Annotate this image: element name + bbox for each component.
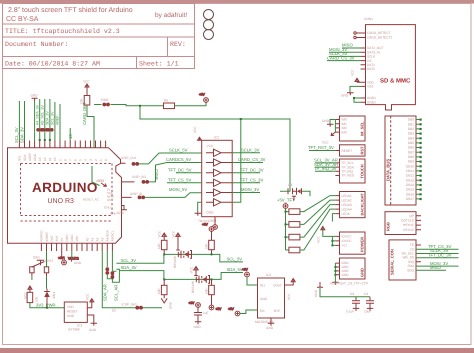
DATA BUS pin names and stubs xyxy=(406,118,414,201)
arduino top header pins xyxy=(19,141,105,148)
svg-text:10K: 10K xyxy=(204,287,208,294)
mounting hole H1 xyxy=(204,10,214,20)
svg-text:TP_RES: TP_RES xyxy=(342,174,354,178)
wire VCC3 inside arduino xyxy=(92,166,100,186)
title block outline xyxy=(3,4,195,69)
vcc arrow near IM box xyxy=(322,132,335,144)
svg-text:SCL_3V: SCL_3V xyxy=(121,258,137,263)
+5V circle below buffer xyxy=(213,225,218,230)
buffer gate 4 xyxy=(206,179,232,186)
svg-text:IM3: IM3 xyxy=(342,130,348,134)
svg-text:CARD_DETECT1: CARD_DETECT1 xyxy=(367,36,393,40)
svg-text:GND: GND xyxy=(33,153,37,161)
svg-text:MOSI_3V: MOSI_3V xyxy=(241,187,259,192)
svg-text:A1: A1 xyxy=(90,237,94,241)
svg-text:IM_SEL: IM_SEL xyxy=(360,121,365,136)
wires touch signals xyxy=(314,158,338,172)
svg-text:Q3: Q3 xyxy=(288,183,292,187)
jumper ICSP_SI xyxy=(130,192,202,199)
buffer input wires 3 and 4 xyxy=(167,173,202,183)
svg-text:A3: A3 xyxy=(101,237,105,241)
vcc arrow over R1 xyxy=(158,230,167,240)
svg-text:13: 13 xyxy=(38,157,42,161)
wires IM pins to gnd xyxy=(322,119,335,132)
vcc arrow above buffer xyxy=(193,126,202,141)
svg-text:EN: EN xyxy=(260,309,265,313)
arduino bottom pin names xyxy=(40,229,115,241)
svg-text:LEDK: LEDK xyxy=(342,212,351,216)
svg-text:DB12: DB12 xyxy=(406,174,414,178)
svg-text:RGB: RGB xyxy=(385,222,390,231)
svg-text:SW1: SW1 xyxy=(33,256,40,260)
svg-text:13: 13 xyxy=(68,134,73,139)
svg-text:+5V: +5V xyxy=(202,223,209,227)
svg-text:2.8” touch screen TFT shield f: 2.8” touch screen TFT shield for Arduino xyxy=(8,6,133,14)
wire SCL vertical with jumper SJ5 xyxy=(111,251,120,301)
svg-text:0.1uF: 0.1uF xyxy=(346,310,354,314)
svg-text:5V: 5V xyxy=(60,237,64,242)
buffer output wires with labels xyxy=(232,148,265,193)
backlight resistor R7 xyxy=(289,205,336,240)
svg-text:CARD_CS_3V: CARD_CS_3V xyxy=(238,157,266,162)
TFT gate BACKLIGHT box xyxy=(335,192,365,218)
svg-text:+3V: +3V xyxy=(242,268,249,272)
TFT gate RST box xyxy=(335,145,365,156)
svg-text:DB0: DB0 xyxy=(408,118,414,122)
+5V circle over R2 xyxy=(202,223,214,241)
wire SDA_3V from top pin xyxy=(24,101,26,141)
+3V circle mid xyxy=(189,301,201,307)
jumper ICSP_SO xyxy=(132,163,202,184)
gnd arrow under R3 xyxy=(161,298,172,309)
svg-text:Document Number:: Document Number: xyxy=(5,41,68,48)
svg-text:VCC: VCC xyxy=(97,179,104,183)
svg-text:RSRVD: RSRVD xyxy=(40,230,44,242)
backlight rail vertical xyxy=(286,208,289,250)
+5V circle under R4 xyxy=(209,305,222,311)
svg-text:GND: GND xyxy=(322,119,330,123)
svg-text:8: 8 xyxy=(63,159,67,161)
switch SW1 SPST xyxy=(30,256,54,277)
svg-text:CARD_DETECT: CARD_DETECT xyxy=(367,31,391,35)
svg-text:SDA_3V: SDA_3V xyxy=(46,111,50,125)
SD pin stubs left xyxy=(357,33,366,102)
icsp pin stubs on arduino right edge xyxy=(121,163,135,197)
svg-text:CARDCS_5V: CARDCS_5V xyxy=(166,157,191,162)
resistor R4 xyxy=(204,279,214,305)
svg-text:A0: A0 xyxy=(85,237,89,241)
mounting hole H3 xyxy=(204,30,214,40)
svg-text:AREF: AREF xyxy=(56,115,60,125)
resistor R1 xyxy=(157,240,167,254)
svg-text:BACKLIGHT: BACKLIGHT xyxy=(361,192,365,215)
svg-text:VCC: VCC xyxy=(322,141,329,145)
svg-text:9: 9 xyxy=(58,159,62,161)
svg-text:GND: GND xyxy=(314,289,318,297)
frame bottom band xyxy=(0,348,474,353)
svg-text:QP: QP xyxy=(409,214,414,218)
svg-text:+5V: +5V xyxy=(228,307,235,311)
mosfet Q1 xyxy=(173,249,192,269)
junction dots under jumpers xyxy=(39,139,51,141)
svg-text:A5_SCL_3V: A5_SCL_3V xyxy=(40,105,44,125)
junction dots Q2 row xyxy=(163,278,212,280)
solder jumper SJ3 xyxy=(46,128,53,132)
svg-text:3V3: 3V3 xyxy=(55,236,59,242)
svg-text:BSS138: BSS138 xyxy=(191,281,195,293)
hex buffer IC2 box xyxy=(198,136,232,224)
rotated net labels over jumper wires xyxy=(35,104,59,125)
wire pwm gate xyxy=(291,191,293,193)
capacitor C4 xyxy=(364,292,374,314)
svg-text:A4_SDA_3V: A4_SDA_3V xyxy=(35,104,39,125)
frame top band xyxy=(0,0,474,4)
svg-text:DB6: DB6 xyxy=(408,146,414,150)
svg-text:BSS138: BSS138 xyxy=(173,256,177,268)
SD card detect stubs xyxy=(357,33,361,38)
+3V circle at IC4 input xyxy=(242,268,258,286)
wire D13 stub xyxy=(69,128,71,141)
svg-text:IOVCC: IOVCC xyxy=(342,235,353,239)
vcc arrow at IC3 out xyxy=(86,293,94,308)
svg-text:5: 5 xyxy=(79,159,83,161)
svg-text:GND: GND xyxy=(117,211,125,215)
wire SDA vertical with jumper SJ4 xyxy=(103,251,117,301)
wire CARD_CS_3V into SD xyxy=(327,55,361,60)
+5V supply circle xyxy=(199,93,208,103)
resistor R3 xyxy=(157,279,167,298)
jumper ICSP_SH1 xyxy=(112,303,143,313)
wires gnd box to ground xyxy=(332,263,339,285)
wire LEDK down xyxy=(332,214,335,222)
svg-text:GND: GND xyxy=(342,273,350,277)
svg-text:DB14: DB14 xyxy=(406,183,414,187)
svg-text:TFT_CS_5V: TFT_CS_5V xyxy=(168,178,191,183)
svg-text:IN1: IN1 xyxy=(260,284,265,288)
svg-text:TP_IRQ_3V: TP_IRQ_3V xyxy=(314,166,337,171)
buffer input net labels xyxy=(166,148,192,193)
wire jumper column 3 xyxy=(49,99,51,141)
svg-text:VCC: VCC xyxy=(193,126,197,133)
wire MISO right xyxy=(416,265,446,270)
svg-text:ICSP_SH1: ICSP_SH1 xyxy=(122,303,138,307)
svg-text:SDO: SDO xyxy=(407,268,414,272)
svg-text:Sheet: 1/1: Sheet: 1/1 xyxy=(139,61,179,68)
svg-text:DB10: DB10 xyxy=(406,164,414,168)
svg-text:DB13: DB13 xyxy=(406,178,414,182)
svg-text:C4: C4 xyxy=(364,292,368,296)
svg-text:TFT_CS_3V: TFT_CS_3V xyxy=(240,178,263,183)
svg-text:1: 1 xyxy=(99,159,103,161)
svg-text:A2: A2 xyxy=(96,237,100,241)
wire TFT_RST_3V xyxy=(308,145,335,151)
arduino right side pin names xyxy=(83,179,118,216)
jumper ICSP_CLK xyxy=(121,153,202,166)
svg-text:DB3: DB3 xyxy=(408,132,414,136)
TFT gate TOUCH box xyxy=(335,159,365,183)
svg-text:+5V_TFT: +5V_TFT xyxy=(277,198,295,203)
wire SCL_3V horizontal xyxy=(116,254,163,263)
svg-text:IC2: IC2 xyxy=(214,136,219,140)
svg-text:DB8: DB8 xyxy=(408,155,414,159)
solder jumper SJ1 xyxy=(36,128,43,132)
vcc arrow to power pins xyxy=(317,227,336,247)
buffer gate6 output wire to backlight xyxy=(232,119,241,202)
svg-text:TFT_DC_3V: TFT_DC_3V xyxy=(428,252,452,257)
svg-text:10uF: 10uF xyxy=(364,310,371,314)
svg-text:A5/SCL: A5/SCL xyxy=(111,230,115,241)
wire through Q2 xyxy=(164,273,243,280)
junction dots Q1 row xyxy=(163,253,212,255)
IC4 regulator box xyxy=(255,273,285,324)
svg-text:GND: GND xyxy=(260,297,268,301)
svg-text:DB2: DB2 xyxy=(408,127,414,131)
wire to resistor R9 xyxy=(119,105,164,106)
svg-text:CON1: CON1 xyxy=(364,17,373,21)
wire SCLK_3V right xyxy=(416,248,459,253)
svg-text:by adafruit!: by adafruit! xyxy=(155,12,187,19)
TFT gate SERIAL_CON box xyxy=(389,240,421,280)
svg-text:D2: D2 xyxy=(112,309,116,313)
svg-text:VCC: VCC xyxy=(317,236,321,243)
svg-text:TFT_DC_3V: TFT_DC_3V xyxy=(240,168,264,173)
svg-text:TFT_DC_5V: TFT_DC_5V xyxy=(168,168,192,173)
svg-text:SCL_AR: SCL_AR xyxy=(114,285,119,301)
gnd arrow symbol left of caps xyxy=(314,282,345,297)
svg-text:LEDA1: LEDA1 xyxy=(342,194,352,198)
wire tall 4 xyxy=(54,102,56,141)
svg-text:0: 0 xyxy=(104,159,108,161)
gnd at IC4 xyxy=(266,318,274,330)
capacitor C5 xyxy=(194,307,209,329)
wire 3V3_PWR to regulator xyxy=(30,302,64,308)
svg-text:10K: 10K xyxy=(157,242,161,249)
mosfet Q2 xyxy=(191,274,210,293)
gnd at IC3 xyxy=(87,315,97,332)
svg-text:ARDUINO: ARDUINO xyxy=(32,180,98,195)
svg-text:+3V: +3V xyxy=(58,256,65,260)
svg-text:GND: GND xyxy=(341,94,349,98)
svg-text:GND: GND xyxy=(104,206,112,210)
wire backlight rail +5V TFT xyxy=(277,198,295,209)
svg-text:LEDA2: LEDA2 xyxy=(342,198,352,202)
svg-text:SD & MMC: SD & MMC xyxy=(380,78,411,85)
jumper PWR_DET xyxy=(94,98,119,106)
svg-text:BYP: BYP xyxy=(274,309,280,313)
mounting hole H2 xyxy=(204,20,214,30)
svg-text:GND: GND xyxy=(89,328,97,332)
svg-text:RESET: RESET xyxy=(67,310,78,314)
svg-text:VSYNC: VSYNC xyxy=(403,228,415,232)
svg-text:UNO R3: UNO R3 xyxy=(48,198,75,205)
vcc arrow inside arduino right xyxy=(97,179,107,187)
buffer gate 5 xyxy=(206,189,232,196)
wire arduino pin to switch xyxy=(46,251,48,289)
vcc arrow above R10 xyxy=(83,80,90,89)
svg-text:GND: GND xyxy=(194,325,202,329)
resistor R10 10K vertical xyxy=(80,88,90,105)
svg-text:VDD: VDD xyxy=(67,305,74,309)
buffer gate 6 xyxy=(206,199,232,206)
vcc arrow for Q1 gate xyxy=(171,230,180,248)
svg-text:12: 12 xyxy=(43,157,47,161)
svg-text:VCC: VCC xyxy=(158,230,162,237)
svg-text:ICSP_CLK: ICSP_CLK xyxy=(121,156,137,160)
svg-text:A4/SDA: A4/SDA xyxy=(106,229,110,241)
svg-text:10K: 10K xyxy=(80,97,84,104)
svg-text:DB11: DB11 xyxy=(406,169,414,173)
svg-text:VCC: VCC xyxy=(171,230,175,237)
vcc arrow at IC4 out xyxy=(285,279,296,301)
gnd bar below buffer left xyxy=(195,202,202,216)
wire SDA_3V horizontal xyxy=(119,265,163,279)
wire MISO into SD xyxy=(342,43,361,49)
svg-text:POWER: POWER xyxy=(360,237,365,252)
svg-text:7: 7 xyxy=(69,159,73,161)
svg-text:10: 10 xyxy=(53,157,57,161)
svg-text:DB16: DB16 xyxy=(406,192,414,196)
backlight resistor R11 xyxy=(289,209,336,253)
svg-text:SDA_3V: SDA_3V xyxy=(121,265,137,270)
regulator IC3 box xyxy=(64,302,87,332)
TFT gate DATA BUS box xyxy=(385,116,416,205)
mosfet Q3 xyxy=(280,183,310,201)
svg-text:VIN: VIN xyxy=(75,235,79,241)
svg-text:MOSI_5V: MOSI_5V xyxy=(169,187,187,192)
buffer gate 3 xyxy=(206,169,232,176)
svg-text:TFT_RST_3V: TFT_RST_3V xyxy=(308,145,334,150)
svg-text:3V3_PWR: 3V3_PWR xyxy=(36,302,56,307)
svg-text:ICSP_SI: ICSP_SI xyxy=(130,192,142,196)
svg-text:IC4: IC4 xyxy=(266,273,271,277)
svg-text:DB15: DB15 xyxy=(406,188,414,192)
svg-text:PWR: PWR xyxy=(101,98,109,102)
resistor R8 10K xyxy=(27,290,38,303)
svg-text:DB9: DB9 xyxy=(408,160,414,164)
svg-text:SCL_3V: SCL_3V xyxy=(51,111,55,125)
svg-text:VOUT2: VOUT2 xyxy=(68,257,79,261)
svg-text:RST: RST xyxy=(107,198,113,202)
svg-text:VCC: VCC xyxy=(189,266,193,273)
svg-text:MISO: MISO xyxy=(154,169,159,180)
SD and MMC card connector CON1 xyxy=(364,17,415,110)
backlight resistor R5 xyxy=(289,196,336,215)
SD VSS to gnd xyxy=(341,86,361,102)
svg-text:6: 6 xyxy=(74,159,78,161)
wire jumper column 2 xyxy=(44,99,46,141)
svg-text:VCI: VCI xyxy=(342,244,347,248)
gnd under arduino gnd pin xyxy=(68,251,81,265)
svg-text:4: 4 xyxy=(84,159,88,161)
wire MOSI_3V into SD xyxy=(329,47,361,52)
TFT gate POWER box xyxy=(335,232,365,254)
svg-text:C3: C3 xyxy=(350,292,354,296)
svg-text:DB7: DB7 xyxy=(408,150,414,154)
svg-text:SCLK_3V: SCLK_3V xyxy=(241,148,260,153)
wire A4 SDA_AR down xyxy=(102,251,162,308)
junction on wire xyxy=(139,105,141,107)
svg-text:2: 2 xyxy=(94,159,98,161)
svg-text:SCL_3V: SCL_3V xyxy=(14,127,19,143)
svg-text:GND: GND xyxy=(65,234,69,242)
svg-text:SDA_AR: SDA_AR xyxy=(103,284,108,301)
svg-text:1uF: 1uF xyxy=(203,311,209,315)
solder jumper SJ2 xyxy=(41,128,48,132)
resistor R2 xyxy=(204,240,214,254)
svg-text:CARD_CS_3V: CARD_CS_3V xyxy=(327,55,355,60)
svg-text:TOUCH: TOUCH xyxy=(360,164,365,178)
svg-text:10K: 10K xyxy=(157,287,161,294)
svg-text:CC BY-SA: CC BY-SA xyxy=(6,16,39,23)
svg-text:10K: 10K xyxy=(204,242,208,249)
svg-text:HSYNC: HSYNC xyxy=(403,223,415,227)
svg-text:RESET_AC: RESET_AC xyxy=(83,198,100,202)
svg-text:MISO: MISO xyxy=(430,265,441,270)
arduino inner dashed outline xyxy=(21,164,113,222)
resistor R9 horizontal xyxy=(164,99,175,109)
TFT gate GND box xyxy=(335,258,365,279)
svg-text:DATA_BUS: DATA_BUS xyxy=(385,159,390,181)
wire CARD_DETECT down to pin xyxy=(87,105,94,148)
capacitor C3 xyxy=(345,292,370,314)
svg-text:VCC: VCC xyxy=(287,293,291,300)
DATA BUS green stubs xyxy=(416,119,422,201)
backlight resistor R6 xyxy=(289,200,336,227)
svg-text:10K: 10K xyxy=(35,295,39,302)
+3V circle under arduino 3V3 pin xyxy=(58,251,79,265)
svg-text:AREF: AREF xyxy=(28,152,32,161)
wire through Q1 xyxy=(164,254,243,262)
wire switch left pin down xyxy=(31,276,33,280)
arduino bottom header pins xyxy=(41,243,112,251)
diode D1 xyxy=(44,289,56,308)
SD pin names xyxy=(367,31,393,104)
vcc arrow for Q2 gate xyxy=(189,266,198,274)
wire TFT_DC_3V right xyxy=(416,252,459,257)
svg-text:GND: GND xyxy=(207,211,215,215)
wire SCLK_3V into SD xyxy=(329,51,361,56)
svg-text:SCL: SCL xyxy=(18,155,22,161)
wire tall 5 xyxy=(59,104,61,141)
gnd pin stub bottom right of arduino xyxy=(117,206,127,216)
wire branch down to backlight loop xyxy=(140,106,290,192)
svg-text:AX7968: AX7968 xyxy=(68,328,80,332)
svg-text:GND: GND xyxy=(360,268,365,277)
svg-text:4001: 4001 xyxy=(52,292,56,299)
svg-text:VOUT: VOUT xyxy=(273,284,282,288)
svg-text:DB5: DB5 xyxy=(408,141,414,145)
svg-text:+5V: +5V xyxy=(199,93,206,97)
svg-text:TITLE: tftcaptouchshield v2.3: TITLE: tftcaptouchshield v2.3 xyxy=(5,28,120,35)
svg-text:GND: GND xyxy=(74,261,82,265)
svg-text:DOTCLK: DOTCLK xyxy=(401,219,415,223)
svg-text:GND: GND xyxy=(169,301,173,309)
svg-text:DB1: DB1 xyxy=(408,122,414,126)
svg-text:VCC: VCC xyxy=(351,69,355,76)
svg-text:GND: GND xyxy=(31,94,39,98)
+5V circle at IC4 EN xyxy=(228,307,258,316)
svg-text:RST: RST xyxy=(360,146,365,155)
svg-text:DB4: DB4 xyxy=(408,136,414,140)
svg-text:ICSP_SO: ICSP_SO xyxy=(132,175,146,179)
svg-text:RESET: RESET xyxy=(342,149,353,153)
svg-text:SDA_3V: SDA_3V xyxy=(19,127,24,143)
TFT gate RGB box xyxy=(385,212,421,235)
svg-text:SCL_5V: SCL_5V xyxy=(227,257,243,262)
svg-text:VCC: VCC xyxy=(207,144,214,148)
svg-text:11: 11 xyxy=(48,157,52,161)
svg-text:VCC: VCC xyxy=(83,80,90,84)
